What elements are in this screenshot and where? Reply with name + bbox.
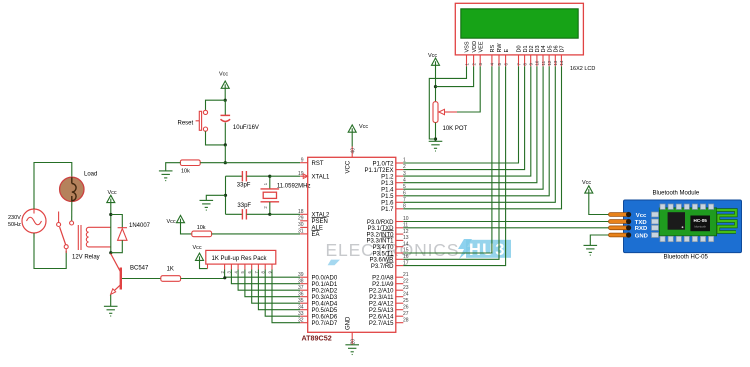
svg-text:50Hz: 50Hz: [8, 222, 21, 228]
svg-text:P1.6: P1.6: [381, 201, 394, 207]
LCD pin 8 D1: [522, 45, 528, 66]
pack pin 2 stub: [220, 264, 225, 273]
svg-text:40: 40: [351, 148, 357, 154]
pin 27 P2.6/A14: [369, 311, 409, 321]
svg-text:RS: RS: [490, 45, 496, 53]
LCD pin 3 VEE: [478, 41, 484, 66]
svg-text:11: 11: [541, 60, 546, 65]
svg-text:Vcc: Vcc: [108, 190, 117, 196]
svg-text:P3.1/TXD: P3.1/TXD: [367, 226, 394, 232]
pack pin 4 stub: [233, 264, 238, 273]
svg-text:P0.2/AD2: P0.2/AD2: [312, 289, 338, 295]
svg-text:P2.6/A14: P2.6/A14: [369, 315, 394, 321]
pack pin 1 stub: [207, 264, 209, 269]
svg-text:10k: 10k: [181, 169, 190, 175]
ground (reset 10k): [159, 171, 173, 181]
svg-text:RW: RW: [497, 43, 503, 53]
svg-text:P2.2/A10: P2.2/A10: [369, 289, 394, 295]
svg-text:P1.7: P1.7: [381, 207, 394, 213]
push button Reset: [196, 110, 208, 131]
junction coil top rail: [109, 213, 112, 216]
pin 31 EA: [298, 229, 320, 239]
pin 39 P0.0/AD0: [298, 272, 338, 282]
svg-text:P1.1/T2EX: P1.1/T2EX: [364, 168, 393, 174]
AC source V1 230V 50Hz: [22, 209, 46, 238]
pin 33 P0.6/AD6: [298, 311, 338, 321]
svg-text:RXD: RXD: [635, 226, 647, 232]
wire LCD D7 to P1.7: [403, 66, 561, 209]
pin 32 P0.7/AD7: [298, 318, 338, 328]
wire LCD VDD to Vcc node: [436, 66, 474, 86]
junction VSS node: [434, 137, 437, 140]
power Vcc (pot): [432, 58, 440, 65]
wire pack pin 6 to P0.4: [252, 270, 301, 304]
resistor R2 1K: [161, 276, 181, 282]
svg-text:1K Pull-up Res Pack: 1K Pull-up Res Pack: [212, 256, 268, 262]
wire P3.1 to module RXD: [403, 227, 610, 229]
pin 28 P2.7/A15: [369, 317, 409, 327]
svg-text:RST: RST: [312, 161, 324, 167]
LCD pin 12 D5: [547, 45, 553, 66]
svg-text:XTAL1: XTAL1: [312, 175, 331, 181]
relay switch pivot terminal: [64, 245, 68, 249]
pin 6 P1.5: [381, 190, 406, 200]
power Vcc (bluetooth): [585, 186, 593, 193]
pin 25 P2.4/A12: [369, 298, 409, 308]
transistor Q1 BC547: [111, 254, 121, 295]
pin 16 P3.6/WR: [369, 254, 408, 264]
LCD pin 13 D6: [553, 45, 559, 66]
svg-text:D3: D3: [535, 45, 541, 52]
svg-text:22: 22: [403, 278, 409, 284]
svg-text:E: E: [504, 49, 510, 53]
svg-text:P2.5/A13: P2.5/A13: [369, 308, 394, 314]
svg-text:P3.5/T1: P3.5/T1: [372, 251, 394, 257]
wire resistor to ground: [166, 163, 181, 171]
LCD screen: [461, 9, 578, 38]
svg-text:Vcc: Vcc: [582, 180, 591, 186]
svg-text:P0.0/AD0: P0.0/AD0: [312, 276, 338, 282]
wire diode branch top: [111, 215, 123, 228]
pin 10 P3.0/RXD: [367, 216, 409, 226]
svg-text:1K: 1K: [167, 267, 174, 273]
svg-text:11.0592MHz: 11.0592MHz: [277, 184, 311, 190]
wire pot bottom to ground: [435, 123, 437, 142]
wire Vcc to pack pin 1: [200, 260, 208, 268]
svg-text:GND: GND: [635, 233, 648, 239]
pin 23 P2.2/A10: [369, 285, 409, 295]
pin 4 P1.3: [381, 177, 406, 187]
diode D1 1N4007: [118, 228, 127, 241]
svg-text:10k: 10k: [197, 225, 206, 231]
svg-text:D1: D1: [523, 45, 529, 52]
module antenna: [717, 210, 736, 232]
svg-text:TXD: TXD: [635, 220, 647, 226]
svg-text:Bluetooth Module: Bluetooth Module: [653, 190, 700, 196]
svg-text:P1.2: P1.2: [381, 174, 394, 180]
module pin RXD: [609, 225, 648, 232]
svg-text:D4: D4: [541, 45, 547, 52]
svg-text:P1.0/T2: P1.0/T2: [372, 161, 394, 167]
svg-text:29: 29: [298, 216, 304, 222]
wire pack pin 2 to P0.0: [225, 270, 301, 278]
power Vcc (res pack): [196, 253, 204, 260]
XTAL1 pin arrow: [303, 174, 308, 179]
svg-text:bluetooth: bluetooth: [694, 225, 706, 229]
potentiometer RV1 10K POT: [433, 102, 457, 123]
svg-text:27: 27: [403, 311, 409, 317]
svg-text:1N4007: 1N4007: [129, 223, 151, 229]
LCD pin 2 VDD: [471, 41, 477, 66]
ground (bluetooth): [584, 245, 598, 255]
wire LCD D6 to P1.6: [403, 66, 555, 202]
svg-text:16X2 LCD: 16X2 LCD: [570, 66, 595, 72]
module top pad row: [660, 204, 714, 209]
pin 8 P1.7: [381, 204, 406, 214]
capacitor C2 33pF: [226, 209, 270, 219]
pin 24 P2.3/A11: [369, 291, 409, 301]
pin 13 P3.3/INT1: [366, 235, 408, 245]
wire pack pin 9 to P0.7: [272, 270, 300, 323]
svg-text:PSEN: PSEN: [312, 219, 328, 225]
wire LCD RW to P3.6: [403, 66, 499, 259]
LCD pin 9 D2: [529, 45, 535, 66]
wire XTAL2 to MCU: [270, 213, 300, 215]
junction VDD node: [434, 85, 437, 88]
wire LCD D5 to P1.5: [403, 66, 549, 196]
svg-text:P2.1/A9: P2.1/A9: [372, 282, 394, 288]
junction reset rail: [224, 99, 227, 102]
LCD pin 4 RS: [490, 45, 496, 67]
resistor R3 10k (EA): [192, 231, 212, 237]
pin 35 P0.4/AD4: [298, 298, 338, 308]
wire 1K to P0.0 node: [181, 278, 225, 280]
svg-text:HC-05: HC-05: [694, 218, 708, 223]
junction XTAL1 node: [268, 175, 271, 178]
svg-text:Vcc: Vcc: [219, 72, 228, 78]
svg-text:D6: D6: [554, 45, 560, 52]
wire pack pin 7 to P0.5: [258, 270, 300, 310]
pack pin 9 stub: [267, 264, 272, 273]
pin 11 P3.1/TXD: [367, 223, 408, 233]
pin 38 P0.1/AD1: [298, 279, 338, 289]
pin 26 P2.5/A13: [369, 304, 409, 314]
svg-text:P3.2/INT0: P3.2/INT0: [366, 232, 394, 238]
capacitor C1 33pF: [226, 171, 270, 181]
module chip 1: [668, 212, 685, 230]
pin 5 P1.4: [381, 184, 406, 194]
svg-text:Vcc: Vcc: [359, 124, 368, 130]
wire button bottom to cap node: [206, 131, 226, 145]
wire pack pin 4 to P0.2: [238, 270, 300, 291]
power Vcc (reset): [221, 81, 229, 88]
wire rail to ground: [206, 195, 225, 200]
svg-text:P0.3/AD3: P0.3/AD3: [312, 295, 338, 301]
junction XTAL2 node: [268, 213, 271, 216]
svg-text:VCC: VCC: [346, 160, 352, 173]
wire Vcc down to reset rail: [224, 88, 226, 100]
LCD pin 1 VSS: [464, 41, 470, 66]
power Vcc (EA): [177, 215, 185, 222]
LCD pin 6 E: [503, 49, 509, 67]
svg-text:21: 21: [403, 272, 409, 278]
pin 3 P1.2: [381, 171, 406, 181]
watermark small bolt fragment: [328, 260, 340, 266]
ground (pot): [429, 141, 443, 151]
junction RST line: [224, 161, 227, 164]
svg-text:P2.7/A15: P2.7/A15: [369, 321, 394, 327]
pin 18 XTAL2: [298, 209, 330, 219]
svg-text:P2.3/A11: P2.3/A11: [369, 295, 394, 301]
wire AC top to lamp: [34, 163, 72, 210]
svg-text:10K POT: 10K POT: [443, 126, 468, 132]
svg-text:230V: 230V: [8, 215, 21, 221]
pack pin 7 stub: [254, 264, 259, 273]
svg-text:13: 13: [403, 235, 409, 241]
svg-text:Reset: Reset: [178, 120, 194, 126]
svg-text:D7: D7: [560, 45, 566, 52]
pin 12 P3.2/INT0: [366, 229, 408, 239]
relay core: [77, 225, 79, 250]
svg-text:Vcc: Vcc: [193, 245, 202, 251]
resistor R1 10k (reset): [180, 160, 200, 166]
module pin Vcc: [609, 212, 648, 219]
svg-text:24: 24: [403, 291, 409, 297]
pin 14 P3.4/T0: [372, 241, 408, 251]
wire pack pin 5 to P0.3: [245, 270, 300, 297]
svg-text:BC547: BC547: [130, 265, 149, 271]
op-amp U1 AT89C52 body: [308, 157, 396, 332]
wire LCD D1 to P1.1: [403, 66, 524, 169]
HC-05 green daughter board: [659, 208, 716, 236]
svg-text:GND: GND: [346, 316, 352, 330]
svg-text:Load: Load: [84, 172, 97, 178]
pin 20 stub (GND): [351, 332, 353, 345]
pin 17 P3.7/RD: [371, 260, 409, 270]
pin 2 P1.1/T2EX: [364, 164, 406, 174]
module bottom pad row: [660, 236, 714, 241]
watermark lightning bolt: [458, 239, 473, 259]
pin 29 PSEN: [298, 216, 328, 226]
wire AC bottom to contact pivot: [34, 233, 66, 269]
svg-text:9: 9: [301, 158, 304, 164]
svg-text:20: 20: [351, 339, 357, 345]
pin 15 P3.5/T1: [372, 248, 408, 258]
svg-text:P3.7/RD: P3.7/RD: [371, 264, 394, 270]
LCD pin 5 RW: [497, 43, 503, 67]
svg-text:P2.0/A8: P2.0/A8: [372, 276, 394, 282]
module left solder pads: [652, 212, 659, 238]
ground (MCU pin 20): [345, 345, 359, 355]
pin 9 RST: [300, 158, 324, 168]
svg-text:Vcc: Vcc: [428, 53, 437, 59]
LCD pin 10 D3: [535, 45, 541, 66]
bluetooth module HC-05 carrier board: [624, 200, 742, 253]
svg-text:13: 13: [553, 60, 558, 65]
resistor pack RP1 1K Pull-up Res Pack: [206, 250, 276, 264]
pack pin 6 stub: [247, 264, 252, 273]
svg-text:10uF/16V: 10uF/16V: [233, 125, 259, 131]
wire pack pin 8 to P0.6: [265, 270, 300, 317]
svg-text:25: 25: [403, 298, 409, 304]
svg-text:D2: D2: [529, 45, 535, 52]
wire cap left rail: [225, 176, 227, 214]
wire emitter to ground: [110, 295, 112, 307]
power Vcc (relay): [107, 195, 115, 202]
pin 34 P0.5/AD5: [298, 305, 338, 315]
LCD LCD1 16X2 body: [455, 3, 583, 55]
relay contact terminal under lamp: [70, 221, 74, 225]
pack pin 5 stub: [240, 264, 245, 273]
ground (crystal caps): [200, 200, 214, 210]
pin 22 P2.1/A9: [372, 278, 409, 288]
wire module GND to ground: [590, 235, 610, 245]
junction 1K / P0.0: [223, 276, 226, 279]
pin 19 XTAL1: [298, 171, 330, 181]
junction coil bottom rail: [109, 251, 112, 254]
svg-text:VSS: VSS: [465, 41, 471, 52]
svg-text:14: 14: [403, 241, 409, 247]
wire LCD E to P3.7: [403, 66, 505, 265]
svg-text:23: 23: [403, 285, 409, 291]
wire pack pin 3 to P0.1: [231, 270, 300, 284]
svg-text:Vcc: Vcc: [636, 213, 647, 219]
svg-text:D0: D0: [517, 45, 523, 52]
pack pin 8 stub: [261, 264, 266, 273]
relay RL1 coil: [86, 227, 110, 247]
wire LCD D2 to P1.2: [403, 66, 531, 176]
svg-text:P3.4/T0: P3.4/T0: [372, 245, 394, 251]
wire P3.0 to module TXD: [403, 221, 610, 223]
crystal X1 11.0592MHz: [261, 176, 280, 214]
svg-text:12V Relay: 12V Relay: [72, 254, 100, 260]
svg-text:28: 28: [403, 317, 409, 323]
svg-text:P0.4/AD4: P0.4/AD4: [312, 302, 338, 308]
svg-text:P3.0/RXD: P3.0/RXD: [367, 220, 394, 226]
svg-text:AT89C52: AT89C52: [302, 334, 332, 343]
svg-text:14: 14: [559, 60, 564, 65]
wire LCD VSS to ground rail: [429, 66, 466, 139]
svg-text:33pF: 33pF: [237, 183, 251, 189]
wire diode branch bottom: [111, 240, 123, 252]
pin 30 ALE: [298, 222, 323, 232]
pin 40 stub: [351, 147, 353, 158]
wire LCD RS to P3.5: [403, 66, 492, 253]
svg-text:10: 10: [535, 60, 540, 65]
svg-text:P2.4/A12: P2.4/A12: [369, 302, 394, 308]
watermark HUB box: [466, 240, 511, 258]
svg-text:Vcc: Vcc: [167, 219, 176, 225]
svg-text:P1.4: P1.4: [381, 188, 394, 194]
pack pin 3 stub: [227, 264, 232, 273]
relay switch blade: [60, 227, 66, 245]
wire Vcc to 10k: [181, 223, 192, 234]
pin 36 P0.3/AD3: [298, 292, 338, 302]
svg-text:30: 30: [298, 222, 304, 228]
wire lamp bottom to relay contact: [71, 201, 73, 220]
junction cap rail mid: [224, 194, 227, 197]
wire Vcc to pin 40: [351, 132, 353, 146]
svg-text:P0.1/AD1: P0.1/AD1: [312, 282, 338, 288]
module pin TXD: [609, 219, 647, 226]
wire 10k to EA: [212, 233, 301, 235]
pin 1 P1.0/T2: [372, 158, 406, 168]
wire LCD D4 to P1.4: [403, 66, 543, 189]
svg-text:EA: EA: [312, 232, 320, 238]
ground (emitter): [104, 306, 118, 316]
wire XTAL1 to MCU: [270, 175, 300, 177]
svg-text:12: 12: [403, 229, 409, 235]
wire node down to RST line: [224, 145, 226, 163]
svg-text:18: 18: [298, 209, 304, 215]
wire Vcc to pot top: [435, 65, 437, 101]
svg-text:P0.6/AD6: P0.6/AD6: [312, 315, 338, 321]
wire rail to button top: [206, 100, 226, 110]
svg-text:P0.5/AD5: P0.5/AD5: [312, 308, 338, 314]
svg-text:P1.3: P1.3: [381, 181, 394, 187]
LCD pin 7 D0: [516, 45, 522, 66]
module chip 2 HC-05: [690, 216, 710, 232]
svg-text:P3.6/WR: P3.6/WR: [369, 258, 394, 264]
svg-text:P1.5: P1.5: [381, 194, 394, 200]
lamp LOAD: [60, 177, 84, 201]
LCD pin 14 D7: [559, 45, 565, 66]
wire base to resistor: [122, 278, 161, 280]
svg-text:P0.7/AD7: P0.7/AD7: [312, 321, 338, 327]
wire resistor to RST junction and to MCU RST: [200, 162, 225, 164]
svg-text:26: 26: [403, 304, 409, 310]
junction cap/button bottom: [224, 143, 227, 146]
pin 21 P2.0/A8: [372, 272, 409, 282]
wire LCD D0 to P1.0: [403, 66, 518, 163]
relay switch contact left terminal: [58, 212, 60, 223]
pin 37 P0.2/AD2: [298, 285, 338, 295]
wire LCD D3 to P1.3: [403, 66, 537, 183]
module pin GND: [609, 232, 648, 239]
pin 7 P1.6: [381, 197, 406, 207]
svg-text:HU3: HU3: [469, 241, 506, 259]
svg-text:31: 31: [298, 229, 304, 235]
power Vcc (MCU pin 40): [348, 125, 356, 132]
wire Vcc to coil/collector rail: [110, 203, 112, 253]
svg-text:P3.3/INT1: P3.3/INT1: [366, 239, 394, 245]
capacitor C3 10uF/16V: [221, 100, 231, 145]
svg-text:VDD: VDD: [472, 41, 478, 53]
svg-text:Bluetooth HC-05: Bluetooth HC-05: [664, 254, 709, 260]
svg-text:VEE: VEE: [478, 41, 484, 52]
wire Vcc to module Vcc pin: [589, 193, 610, 214]
LCD pin 11 D4: [541, 45, 547, 66]
svg-text:12: 12: [547, 60, 552, 65]
svg-text:D5: D5: [547, 45, 553, 52]
wire LCD VEE to pot wiper: [457, 66, 480, 112]
svg-text:33pF: 33pF: [237, 203, 251, 209]
